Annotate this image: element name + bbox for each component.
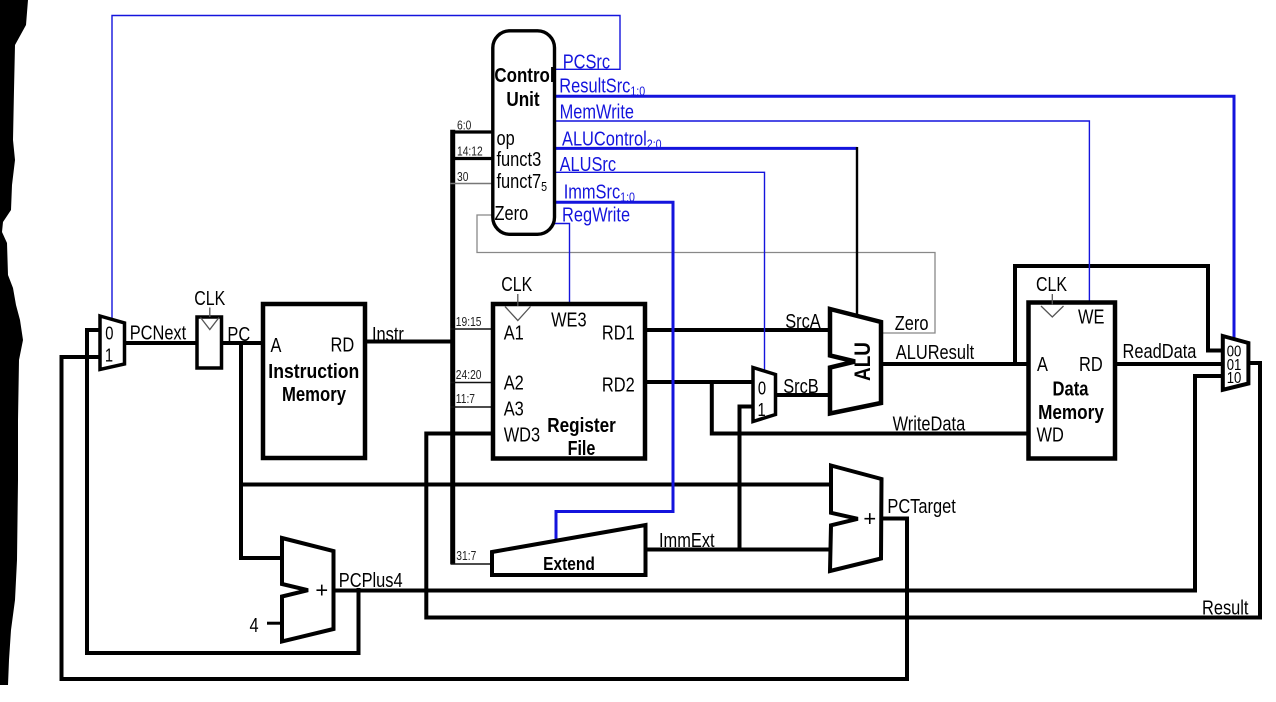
- svg-text:19:15: 19:15: [456, 315, 482, 329]
- svg-text:funct3: funct3: [497, 149, 542, 171]
- svg-text:RD1: RD1: [602, 322, 635, 344]
- svg-text:A2: A2: [504, 372, 524, 394]
- svg-text:CLK: CLK: [1036, 274, 1068, 296]
- svg-text:Instr: Instr: [372, 324, 404, 346]
- svg-text:op: op: [497, 128, 515, 150]
- svg-text:ImmExt: ImmExt: [659, 530, 715, 552]
- svg-text:WriteData: WriteData: [893, 413, 966, 435]
- svg-text:File: File: [568, 438, 596, 460]
- svg-text:11:7: 11:7: [456, 392, 475, 406]
- svg-text:Control: Control: [494, 65, 554, 87]
- svg-text:CLK: CLK: [501, 274, 533, 296]
- svg-text:+: +: [863, 506, 876, 531]
- svg-text:WE: WE: [1078, 307, 1104, 329]
- svg-text:Memory: Memory: [1038, 402, 1105, 424]
- svg-text:Extend: Extend: [543, 554, 595, 574]
- svg-text:SrcB: SrcB: [783, 376, 819, 398]
- svg-text:ALU: ALU: [850, 342, 875, 381]
- svg-text:Zero: Zero: [895, 313, 929, 335]
- svg-text:1: 1: [105, 346, 113, 366]
- svg-text:30: 30: [457, 170, 468, 184]
- svg-text:A: A: [271, 335, 282, 357]
- svg-text:+: +: [315, 578, 328, 603]
- svg-text:MemWrite: MemWrite: [560, 102, 634, 124]
- svg-text:Register: Register: [547, 415, 616, 437]
- svg-text:Result: Result: [1202, 598, 1249, 620]
- svg-text:RD: RD: [331, 335, 355, 357]
- svg-text:ReadData: ReadData: [1123, 341, 1198, 363]
- svg-text:RD2: RD2: [602, 374, 635, 396]
- svg-text:A3: A3: [504, 399, 524, 421]
- svg-text:4: 4: [249, 615, 258, 637]
- svg-text:Zero: Zero: [495, 203, 529, 225]
- svg-text:14:12: 14:12: [457, 145, 483, 159]
- svg-text:1: 1: [758, 400, 766, 420]
- svg-text:6:0: 6:0: [457, 119, 471, 133]
- svg-text:PCSrc: PCSrc: [563, 52, 610, 74]
- svg-text:RegWrite: RegWrite: [562, 204, 630, 226]
- svg-text:CLK: CLK: [194, 288, 226, 310]
- svg-text:A: A: [1037, 354, 1048, 376]
- svg-text:WD: WD: [1037, 425, 1064, 447]
- svg-text:PC: PC: [227, 324, 250, 346]
- svg-text:ALUSrc: ALUSrc: [560, 154, 617, 176]
- svg-text:Memory: Memory: [282, 384, 347, 406]
- svg-text:ALUControl2:0: ALUControl2:0: [562, 129, 662, 152]
- svg-text:PCNext: PCNext: [130, 323, 187, 345]
- svg-text:WE3: WE3: [551, 310, 587, 332]
- svg-text:Unit: Unit: [506, 89, 540, 111]
- svg-text:funct75: funct75: [497, 171, 548, 194]
- svg-text:PCTarget: PCTarget: [887, 496, 956, 518]
- svg-text:24:20: 24:20: [456, 368, 482, 382]
- svg-text:RD: RD: [1079, 354, 1103, 376]
- svg-text:Instruction: Instruction: [268, 361, 359, 383]
- svg-text:Data: Data: [1053, 379, 1090, 401]
- svg-text:ALUResult: ALUResult: [896, 342, 975, 364]
- svg-text:31:7: 31:7: [456, 549, 476, 563]
- svg-text:A1: A1: [504, 322, 524, 344]
- svg-text:PCPlus4: PCPlus4: [339, 570, 403, 592]
- svg-text:SrcA: SrcA: [785, 311, 821, 333]
- svg-text:0: 0: [758, 379, 766, 399]
- svg-text:0: 0: [105, 323, 113, 343]
- svg-text:10: 10: [1227, 370, 1242, 387]
- svg-text:WD3: WD3: [504, 424, 540, 446]
